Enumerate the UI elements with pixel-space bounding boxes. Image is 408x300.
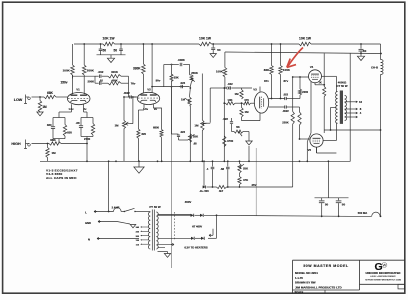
svg-text:-K+ 500: -K+ 500 (199, 189, 209, 193)
svg-text:.022: .022 (223, 117, 229, 121)
svg-text:.0022: .0022 (123, 91, 130, 95)
resistor R24 220K (299, 107, 301, 112)
resistor R11 330K (142, 44, 144, 64)
wire coupling row2 (95, 82, 99, 84)
wire V1 cathode B down (83, 104, 85, 112)
resistor R26 screen V5 (316, 147, 318, 153)
resistor R17 470 (235, 102, 243, 104)
svg-text:330: 330 (47, 123, 52, 127)
resistor R19 4700 (223, 136, 226, 147)
svg-text:400K: 400K (111, 79, 117, 83)
wire V2 plate to box (152, 86, 190, 88)
diode D1 (191, 214, 194, 217)
svg-text:.02: .02 (99, 79, 103, 83)
capacitor C9 .022 mid (178, 133, 179, 135)
wire V4 plate to OT (322, 75, 337, 77)
capacitor C8 .022 (180, 85, 182, 88)
ground PT (164, 254, 170, 258)
wire V1 cathode B bottom (81, 136, 93, 138)
svg-text:500 MA: 500 MA (358, 211, 367, 215)
svg-text:45V: 45V (251, 183, 256, 187)
svg-text:87v: 87v (284, 79, 289, 83)
resistor R21 100K plate (280, 44, 282, 66)
wire network box left (163, 65, 165, 87)
switch S1 gang dashed (174, 212, 176, 240)
tube V1 ECC83 (67, 93, 90, 105)
wire V4 grid feed (293, 76, 309, 78)
svg-text:V4: V4 (310, 65, 314, 69)
svg-text:SCALE: SCALE (295, 290, 304, 294)
svg-text:33K: 33K (174, 76, 179, 80)
svg-text:25K: 25K (243, 167, 248, 171)
svg-text:10K: 10K (227, 98, 232, 102)
ground chassis (130, 225, 136, 228)
svg-text:L: L (85, 210, 87, 214)
capacitor C_f2 50 (120, 44, 122, 49)
resistor R8 2700 (91, 124, 94, 136)
tube V3 ECC83 (254, 92, 268, 113)
choke CH-B (381, 60, 384, 75)
wire OT tap 4 (345, 112, 356, 114)
svg-text:HT 460V: HT 460V (192, 225, 203, 229)
svg-text:50: 50 (342, 202, 346, 206)
transformer PT core (151, 210, 153, 251)
capacitor C17 50 (338, 198, 340, 201)
svg-text:.68: .68 (193, 142, 197, 146)
svg-text:50: 50 (217, 48, 221, 52)
wire OT tap 16 (345, 101, 356, 103)
svg-text:200K: 200K (88, 80, 95, 84)
svg-text:16: 16 (359, 100, 362, 104)
wire V1 plate A to 100K (72, 75, 74, 94)
svg-text:220K: 220K (282, 121, 288, 125)
wire V1 plate B to 200K (83, 75, 85, 94)
capacitor C6 .0022 coupling (124, 96, 130, 98)
capacitor C_f4 50 (360, 44, 362, 49)
diode D4 (191, 237, 194, 240)
svg-text:90v: 90v (156, 79, 161, 83)
transformer PT secondary (156, 212, 158, 249)
diode D5 (201, 237, 204, 240)
wire V1 cathode A bottom (53, 138, 65, 140)
wire bias row (207, 186, 217, 188)
capacitor C15 presence (226, 166, 230, 168)
diode D2 (200, 214, 203, 217)
svg-text:1M: 1M (52, 151, 57, 155)
resistor R_rail2 10K 1W (199, 42, 212, 46)
resistor R13 6800 V2 cathode (154, 104, 162, 129)
svg-text:.002: .002 (98, 70, 104, 74)
resistor R25 screen V4 (314, 83, 316, 85)
resistor R2 1M (39, 97, 41, 101)
resistor R22 220K (292, 77, 294, 112)
svg-text:1-1-76: 1-1-76 (295, 276, 303, 280)
resistor R12 820 V2 cathode (143, 104, 145, 110)
svg-text:5K: 5K (236, 125, 240, 129)
svg-text:ALL CAPS IN MFD: ALL CAPS IN MFD (46, 176, 77, 180)
capacitor C2 330 (51, 126, 55, 128)
resistor R15 1M PI grid (241, 88, 243, 90)
wire heater hook (212, 229, 214, 236)
wire fold line (170, 64, 172, 268)
svg-text:100K: 100K (216, 70, 224, 74)
annotation red arrow (288, 48, 303, 67)
wire B+ rail segment 1 (74, 43, 103, 45)
resistor R3 68K (49, 142, 61, 145)
wire B+ rail segment 3 (212, 43, 300, 45)
svg-text:V1: V1 (76, 88, 80, 92)
svg-text:100K: 100K (283, 68, 291, 72)
wire V3 out bottom (269, 106, 285, 108)
svg-text:.022: .022 (180, 130, 186, 134)
wire screen supply (324, 129, 380, 131)
svg-text:GND: GND (85, 221, 91, 225)
svg-text:470: 470 (244, 98, 249, 102)
svg-text:DRAWN BY RW: DRAWN BY RW (295, 280, 316, 284)
svg-text:76v: 76v (131, 82, 136, 86)
svg-text:50: 50 (363, 49, 367, 53)
svg-text:CH-B: CH-B (371, 66, 378, 70)
svg-text:1M: 1M (234, 92, 239, 96)
wire PI feed (210, 87, 225, 89)
svg-text:2 AMP: 2 AMP (112, 205, 120, 209)
potentiometer VR6 5K (232, 131, 235, 133)
svg-text:.0022: .0022 (282, 109, 289, 113)
wire coupling row1 (72, 75, 74, 79)
svg-text:100K: 100K (63, 69, 71, 73)
resistor R_rail1 10K 1W (103, 42, 115, 46)
ground bus main (138, 161, 140, 167)
ground C_f3 (210, 54, 216, 58)
fuse F1 2 AMP (114, 208, 122, 212)
svg-text:.0068: .0068 (178, 58, 185, 62)
svg-text:6.3V TO HEATERS: 6.3V TO HEATERS (184, 245, 208, 249)
svg-text:10K 1W: 10K 1W (199, 37, 212, 41)
wire to V2 grid (128, 90, 130, 97)
potentiometer VR3 1M treble (188, 97, 191, 106)
wire V4 cathode down (310, 82, 312, 86)
resistor R1 68K (44, 95, 56, 98)
capacitor C12 .022 top (284, 97, 286, 100)
resistor R14 33K (171, 65, 173, 75)
wire V3 cathode tail (259, 113, 261, 121)
svg-text:UNICORD INCORPORATED: UNICORD INCORPORATED (366, 271, 401, 275)
title block frame (293, 259, 405, 261)
svg-text:4k7: 4k7 (219, 189, 224, 193)
tube V4 6550 (309, 70, 322, 83)
wire screen feed bus (225, 52, 381, 54)
svg-text:.68: .68 (220, 167, 224, 171)
svg-text:10K 1W: 10K 1W (103, 37, 116, 41)
capacitor C14 presence (211, 166, 215, 168)
resistor R16 10K (224, 102, 225, 104)
svg-text:47K: 47K (243, 178, 248, 182)
wire ground bus (40, 160, 351, 162)
wire V5 plate to OT (323, 140, 336, 142)
wire screen node (327, 161, 329, 197)
svg-text:10K 1W: 10K 1W (299, 37, 312, 41)
svg-text:HIGH: HIGH (11, 142, 21, 146)
svg-text:25K: 25K (193, 135, 198, 139)
svg-text:87v: 87v (264, 79, 269, 83)
wire V5 grid feed (300, 138, 311, 140)
svg-text:1M: 1M (115, 124, 120, 128)
wire V5 cathode to bus (306, 142, 308, 162)
wire bias verticals (203, 161, 205, 187)
svg-text:2200: 2200 (302, 90, 308, 94)
transformer OT secondary (345, 96, 347, 121)
resistor R6 200K (83, 44, 85, 65)
transformer PT primary (148, 212, 150, 249)
title block scale box (398, 284, 405, 289)
resistor R9 400K (108, 75, 121, 78)
svg-text:MODEL NO 2204: MODEL NO 2204 (295, 271, 318, 275)
svg-text:50: 50 (114, 49, 118, 53)
wire HIGH to R3 (32, 143, 50, 145)
wire PT CT ground (158, 251, 168, 253)
svg-text:LOW: LOW (14, 98, 23, 102)
wire OT center tap (331, 107, 337, 109)
wire B+ rail segment 4 (311, 43, 381, 45)
wire OT tap 8 (345, 108, 356, 110)
wire R3 to grid node (61, 143, 87, 145)
svg-text:820: 820 (142, 132, 147, 136)
resistor R4 1M (47, 144, 49, 148)
capacitor C_f1 50 (100, 44, 102, 49)
ground C_f4 (357, 56, 364, 60)
svg-text:50: 50 (103, 49, 107, 53)
diode D3 bias (203, 185, 206, 188)
wire network box bottom (189, 87, 191, 88)
wire V3 plate stub (259, 87, 261, 93)
potentiometer VR1 1M volume (122, 121, 125, 129)
potentiometer VR5 25K mid (179, 139, 189, 141)
switch S1 mains (124, 211, 125, 212)
svg-text:150v: 150v (61, 81, 68, 85)
svg-text:N: N (88, 237, 90, 241)
svg-text:.68: .68 (76, 121, 80, 125)
svg-text:1M: 1M (245, 110, 250, 114)
resistor R20 82K plate (271, 44, 273, 66)
ground filter caps (107, 58, 114, 62)
wire PT secondary HT (158, 214, 191, 216)
wire B+ rail segment 2 (115, 43, 200, 45)
capacitor C_f3 50 (212, 44, 214, 47)
svg-text:.022: .022 (283, 93, 289, 97)
wire HT output (204, 215, 349, 216)
svg-text:V3: V3 (253, 88, 257, 92)
potentiometer VR7 25K presence (238, 164, 241, 174)
svg-text:82K: 82K (264, 68, 270, 72)
resistor R23 2200 grid stopper (299, 95, 301, 99)
wire B+ riser (380, 44, 382, 60)
wire PI input (223, 88, 225, 161)
wire to volume pot (123, 97, 125, 121)
tube V2 ECC83 (137, 92, 159, 104)
potentiometer VR4 1M bass (201, 74, 203, 121)
wire heater drop (108, 161, 110, 211)
resistor R5 100K (72, 44, 74, 65)
capacitor C4 .002 (95, 75, 99, 77)
resistor R7 820 (63, 125, 66, 137)
wire bias feed vertical (216, 215, 218, 238)
svg-text:50: 50 (325, 202, 329, 206)
svg-text:330K: 330K (133, 67, 141, 71)
ground PI (246, 141, 253, 145)
capacitor C7 .0068 (164, 64, 179, 66)
tube V5 6550 (310, 134, 323, 147)
resistor R_rail3 10K 1W (299, 42, 311, 46)
svg-text:250K: 250K (191, 71, 198, 75)
svg-text:4700: 4700 (227, 139, 234, 143)
svg-text:JIM MARSHALL PRODUCTS LTD: JIM MARSHALL PRODUCTS LTD (295, 285, 343, 289)
transformer OT core (340, 91, 343, 124)
svg-text:820: 820 (67, 131, 72, 135)
wire NFB (349, 53, 351, 161)
svg-text:CT 50 W: CT 50 W (336, 84, 347, 88)
svg-text:V5: V5 (308, 148, 312, 152)
svg-text:50W MASTER MODEL: 50W MASTER MODEL (303, 264, 349, 268)
capacitor C16 50 (315, 197, 349, 199)
wire LOW to R1 (32, 96, 45, 98)
svg-text:1K: 1K (318, 81, 321, 85)
wire heater taps (158, 244, 173, 246)
svg-text:1M: 1M (42, 105, 47, 109)
wire PT taps (142, 226, 149, 228)
svg-text:.022: .022 (227, 82, 233, 86)
wire OT tap common (345, 116, 356, 118)
capacitor C3 .68 (79, 125, 83, 127)
wire V3 out top (269, 98, 285, 100)
wire L to fuse (94, 211, 114, 213)
svg-text:450V: 450V (185, 200, 192, 204)
resistor R27 47K (239, 173, 241, 177)
svg-text:V2: V2 (147, 87, 151, 91)
wire filter cap bottom (97, 54, 126, 56)
svg-text:PT 50 W: PT 50 W (149, 205, 161, 209)
wire V1 cathode A down (71, 104, 73, 112)
resistor R10 200K (108, 82, 121, 85)
potentiometer VR2 250K (189, 65, 191, 75)
wire V2 plate B (151, 44, 153, 93)
svg-text:200K: 200K (87, 69, 95, 73)
resistor R28 4k7 (217, 185, 227, 188)
wire fold line 2 (255, 148, 257, 216)
wire mid cap feed (171, 87, 173, 134)
svg-text:6800: 6800 (153, 125, 159, 129)
svg-text:A GULF + WESTERN COMPANY: A GULF + WESTERN COMPANY (370, 275, 396, 278)
capacitor C13 .0022 bottom (284, 105, 286, 108)
svg-text:1M: 1M (194, 124, 199, 128)
wire PT primary top (148, 211, 151, 213)
svg-text:.022: .022 (180, 81, 186, 85)
svg-text:75 FROST STREET WESTBURY N.Y.: 75 FROST STREET WESTBURY N.Y. 11590 (365, 279, 401, 281)
capacitor C5 .02 (98, 82, 100, 85)
resistor R_PIfeed 100K (224, 52, 226, 68)
resistor R18 1M tail (241, 103, 243, 107)
svg-text:68K: 68K (47, 91, 53, 95)
transformer OT primary (336, 92, 338, 124)
wire R1 to V1 grid (56, 96, 68, 98)
svg-text:400K: 400K (111, 70, 119, 74)
wire V5 cathode loop (317, 152, 337, 154)
fuse F2 500 MA (349, 215, 372, 217)
ground R2 (37, 112, 43, 116)
svg-text:1M: 1M (181, 98, 186, 102)
